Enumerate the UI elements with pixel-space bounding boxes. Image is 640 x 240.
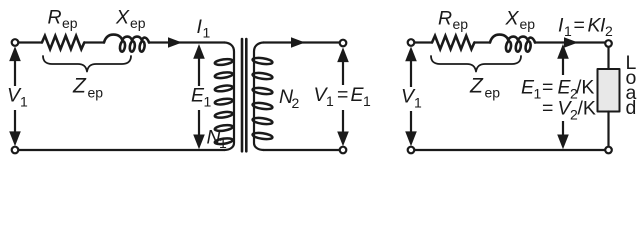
terminal right-circuit top-left [408,39,415,46]
secondary loop 4 [252,102,273,110]
current arrowhead I1=KI2 [564,37,578,47]
inductor Xep (left) loop 2 [129,41,135,52]
wire top-left (terminal to resistor) [18,41,42,43]
terminal bottom-left [12,147,19,154]
svg-text:N2: N2 [279,86,300,111]
primary loop 6 [214,124,233,132]
wire secondary to output terminal [264,41,340,43]
inductor Xep (right) loop 2 [515,41,521,52]
wire load box to bottom terminal [607,112,609,147]
svg-text:Xep: Xep [505,7,536,32]
label E1 = E2/K (on white bg) [517,75,595,121]
current arrowhead secondary output [291,37,305,47]
E1 right arrowhead up [557,44,569,59]
terminal right-circuit top-right [605,40,612,47]
svg-text:Rep: Rep [438,7,468,32]
primary loop 2 [214,71,233,79]
terminal right-circuit bottom-right [605,147,612,154]
resistor Rep (left) [42,36,84,49]
wire top (terminal to resistor, right circuit) [414,41,432,43]
brace Zep (left) [43,56,131,72]
svg-text:Rep: Rep [48,6,78,31]
secondary loop 3 [252,87,273,95]
inductor Xep (left) bridges [104,35,149,43]
V1=E1 arrowhead up [337,47,349,62]
svg-text:Zep: Zep [469,75,500,101]
terminal top-left [12,39,19,46]
load box [598,69,620,112]
V1=E1 arrowhead down [337,132,349,147]
wire right vertical terminal to load box [607,47,609,69]
V1 arrowhead up [9,46,21,61]
wire bottom (right circuit) [414,149,605,151]
svg-text:Xep: Xep [115,6,146,31]
E1 arrowhead down [193,135,205,150]
E1 right arrowhead down [557,135,569,150]
wire resistor to inductor (right) [474,41,490,43]
primary loop 5 [214,111,233,119]
current arrowhead I1 (left) [168,37,182,47]
transformer secondary winding spine with corners [254,43,264,151]
inductor Xep (right) loop 1 [505,41,511,52]
terminal output top [340,40,347,47]
E1 voltage arrow (right, double-headed) [562,50,564,143]
V1 right arrowhead down [405,131,417,146]
terminal right-circuit bottom-left [408,147,415,154]
svg-text:I1: I1 [197,16,211,41]
secondary loop 1 [252,57,273,65]
label V1 (right, on white bg) [399,87,416,111]
secondary loop 5 [252,117,273,125]
svg-text:=V2/K: =V2/K [542,98,596,123]
secondary loop 6 [252,132,273,140]
terminal output bottom [340,147,347,154]
label V1 (left, on white bg) [5,86,22,110]
resistor Rep (right) [432,36,474,49]
primary loop 1 [214,58,233,66]
label V1 = E1 (on white bg) [311,85,373,110]
inductor Xep (left) loop 1 [119,41,125,52]
V1 voltage arrow (right, double-headed) [410,52,412,140]
V1=E1 output voltage arrow (double-headed) [342,52,344,140]
primary loop 4 [214,98,233,106]
brace Zep (right) [431,56,521,72]
inductor Xep (left) loop 3 [139,41,145,52]
svg-text:V1=E1: V1=E1 [314,84,372,109]
wire bottom-left (primary return) [18,149,224,151]
svg-text:d: d [626,97,637,119]
primary loop 3 [214,85,233,93]
wire inductor to transformer primary [149,41,225,43]
transformer primary winding spine with corners [225,43,235,151]
transformer core line 2 [245,39,248,151]
wire bottom secondary to output terminal [264,149,340,151]
label E1 (left, on white bg) [189,86,213,110]
V1 arrowhead down [9,131,21,146]
svg-text:Zep: Zep [72,75,103,101]
svg-text:V1: V1 [7,85,28,110]
primary loop 7 [214,137,233,145]
svg-text:V1: V1 [401,86,422,111]
wire resistor to inductor [84,41,104,43]
inductor Xep (right) loop 3 [525,41,531,52]
inductor Xep (right) bridges [490,35,535,43]
secondary loop 2 [252,72,273,80]
transformer core line 1 [241,39,244,151]
wire inductor to load terminal [535,41,605,43]
V1 right arrowhead up [405,47,417,62]
svg-text:I1=KI2: I1=KI2 [558,15,613,40]
E1 arrowhead up [193,44,205,59]
V1 voltage arrow left (double-headed) [14,52,16,140]
E1 voltage arrow (double-headed) [198,50,200,144]
